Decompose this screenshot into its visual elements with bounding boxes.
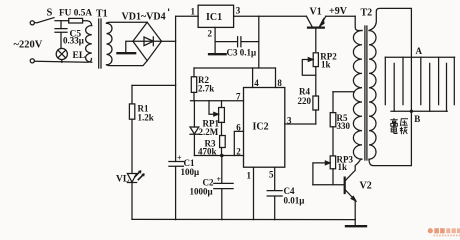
svg-text:0.01μ: 0.01μ — [284, 195, 305, 205]
svg-text:+: + — [217, 175, 222, 184]
capacitor C1 — [169, 162, 184, 220]
transformer T2 primary — [353, 31, 362, 160]
svg-text:VL: VL — [116, 175, 129, 185]
svg-text:FU 0.5A: FU 0.5A — [59, 9, 92, 19]
svg-text:3: 3 — [236, 6, 241, 16]
glyph 极 — [400, 127, 408, 134]
IC1 — [198, 5, 234, 27]
fuse FU — [69, 18, 83, 23]
svg-text:1k: 1k — [338, 162, 348, 172]
svg-text:6: 6 — [236, 122, 241, 132]
diode VD branch — [193, 101, 195, 127]
node rectified rail — [175, 16, 177, 161]
svg-text:2: 2 — [208, 29, 213, 39]
transformer T1 primary — [86, 26, 92, 63]
wire to IC1 pin1 — [176, 15, 199, 17]
potentiometer RP1 — [221, 101, 223, 108]
wire fuse to T1 — [83, 21, 92, 26]
potentiometer RP3 — [330, 156, 335, 169]
wire R1 branch — [132, 84, 176, 86]
electrode top rail — [385, 56, 454, 58]
bottom ground rail — [132, 218, 355, 220]
wire bridge output — [162, 40, 176, 42]
pin5 wire + capacitor C4 — [267, 167, 282, 219]
electrode bottom teeth — [394, 57, 446, 111]
svg-text:EL: EL — [73, 51, 86, 61]
svg-text:3: 3 — [287, 115, 292, 125]
svg-text:8: 8 — [277, 78, 282, 88]
svg-text:5: 5 — [269, 170, 274, 180]
pin8 stub — [275, 68, 277, 88]
terminal bottom-left — [30, 59, 34, 63]
pin1 wire — [253, 167, 255, 219]
tick mark — [168, 9, 169, 12]
svg-text:C3 0.1μ: C3 0.1μ — [227, 48, 257, 58]
transformer T2 core — [365, 26, 367, 160]
potentiometer RP2 — [313, 53, 318, 67]
glyph 电 — [391, 126, 397, 133]
svg-text:IC1: IC1 — [206, 12, 222, 23]
svg-text:330: 330 — [337, 121, 351, 131]
svg-text:S: S — [47, 8, 53, 19]
wire Vcc tap down — [258, 16, 260, 68]
svg-text:T1: T1 — [96, 9, 108, 20]
IC2 — [244, 88, 285, 168]
ground at V2 emitter — [354, 219, 356, 225]
svg-text:1.2k: 1.2k — [138, 113, 154, 123]
svg-text:7: 7 — [236, 92, 241, 102]
wire T2 tap to R5 — [333, 91, 355, 93]
glyph 压 — [400, 119, 408, 126]
wire EL to bottom — [61, 60, 63, 63]
svg-text:1: 1 — [191, 7, 196, 17]
Vcc rail of IC2 — [194, 67, 275, 69]
svg-text:A: A — [416, 46, 423, 56]
node dot R3/C2 — [220, 154, 224, 158]
glyph 高 — [390, 118, 398, 126]
wire T2 secondary top to A — [369, 8, 411, 57]
svg-text:VD1~VD4: VD1~VD4 — [122, 12, 166, 23]
transformer T2 secondary — [369, 31, 376, 160]
wire bottom AC — [34, 59, 91, 63]
pin4 stub — [252, 68, 254, 88]
svg-text:1: 1 — [247, 171, 252, 181]
node C5 branch — [60, 21, 62, 29]
svg-text:4: 4 — [254, 78, 259, 88]
transistor V1 — [306, 16, 312, 27]
svg-text:2: 2 — [236, 147, 241, 157]
svg-text:T2: T2 — [361, 7, 373, 18]
lamp EL — [56, 48, 67, 59]
bridge rectifier VD1~VD4 — [133, 22, 162, 60]
resistor R1 — [131, 85, 133, 104]
terminal top-left — [30, 21, 34, 25]
transformer T1 core — [99, 19, 101, 68]
svg-text:1k: 1k — [321, 60, 331, 70]
electrode bottom rail — [391, 110, 447, 112]
switch S — [34, 18, 54, 23]
svg-text:0.33μ: 0.33μ — [63, 35, 84, 45]
svg-text:+9V: +9V — [329, 6, 348, 17]
svg-text:470k: 470k — [198, 146, 217, 156]
transformer T1 secondary — [107, 23, 113, 65]
svg-text:V1: V1 — [310, 7, 322, 18]
node B dot — [410, 110, 413, 113]
IC1 pin3 +9V rail — [234, 15, 307, 17]
capacitor C5 — [55, 29, 67, 49]
svg-text:+: + — [177, 154, 182, 163]
svg-text:IC2: IC2 — [253, 122, 269, 133]
wire T1 secondary top to bridge — [107, 21, 148, 24]
label 高压电极 (drawn glyphs) — [390, 118, 408, 134]
svg-text:1000μ: 1000μ — [190, 187, 213, 197]
wire junction line pin2 — [194, 155, 243, 157]
svg-text:220: 220 — [298, 96, 312, 106]
LED VL — [127, 174, 136, 183]
resistor R3 — [220, 136, 226, 148]
svg-text:2.2M: 2.2M — [199, 127, 219, 137]
electrode top teeth — [385, 57, 454, 104]
pin6 wire — [234, 131, 243, 155]
svg-text:~220V: ~220V — [14, 40, 43, 51]
transistor V2 — [344, 178, 346, 193]
wire T2 secondary bottom to B — [369, 111, 411, 165]
pin3 wire — [285, 123, 316, 125]
wire +9V to T2 — [355, 16, 362, 30]
wire T1 secondary bottom to bridge — [107, 61, 148, 66]
capacitor C3 — [215, 37, 259, 47]
svg-text:100μ: 100μ — [181, 167, 200, 177]
resistor R2 — [193, 68, 195, 77]
svg-text:B: B — [414, 114, 420, 124]
watermark — [428, 228, 460, 236]
capacitor C2 — [214, 156, 233, 220]
svg-text:V2: V2 — [360, 181, 372, 192]
IC1 pin2 ground — [214, 27, 216, 53]
ground at bridge — [126, 41, 133, 53]
resistor R5 — [332, 92, 334, 113]
wire switch to fuse — [55, 20, 69, 22]
svg-text:2.7k: 2.7k — [198, 84, 214, 94]
wire pin7 rail — [191, 100, 244, 102]
resistor R4 — [313, 96, 319, 110]
